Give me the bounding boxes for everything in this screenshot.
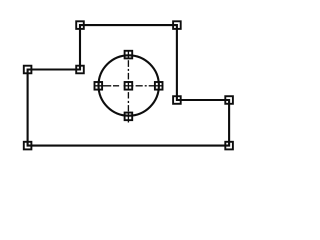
grip: circle bottom quadrant [125,113,133,121]
grip: polyline bottom-right vertex [225,142,233,150]
centerline vertical [127,51,129,123]
polyline outline [28,25,230,146]
grip: polyline top-left vertex [76,21,84,29]
grip: polyline bottom-left vertex [24,142,32,150]
grip: circle right quadrant [155,82,163,90]
grip: circle top quadrant [125,51,133,59]
grip: polyline left step outer vertex [24,66,32,74]
grip: polyline left step inner vertex [76,66,84,74]
grip: circle center [125,82,133,90]
grip: polyline right step outer vertex [225,96,233,104]
grip: polyline top-right vertex [173,21,181,29]
centerline horizontal [94,85,163,87]
circle [99,55,159,115]
grip: circle left quadrant [95,82,103,90]
grip: polyline right step inner vertex [173,96,181,104]
